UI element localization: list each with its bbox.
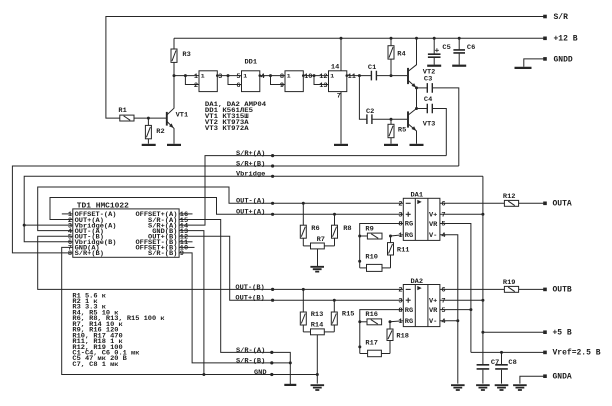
wire pin12 OUT+(B) net to DA2 pin3	[179, 236, 403, 300]
wire DD1 pin7 to ground	[340, 92, 342, 144]
svg-text:R12: R12	[503, 192, 516, 200]
svg-text:C6: C6	[467, 43, 475, 51]
node gate3 input junction	[269, 74, 272, 77]
svg-text:R15: R15	[342, 310, 355, 318]
svg-text:Vbridge: Vbridge	[236, 170, 265, 178]
wire gate4 output down to C2	[359, 76, 367, 120]
logic gate DD1.4 (NOR as inverter)	[329, 71, 347, 92]
wire gate2 feedback loop	[228, 76, 242, 85]
node R16 left	[358, 320, 361, 323]
wire S/R+(A) net: line, drop to HMC pin14, drop from C4	[179, 156, 446, 226]
svg-text:R14: R14	[311, 321, 324, 329]
svg-text:TD1 HMC1022: TD1 HMC1022	[77, 203, 130, 211]
svg-text:R3: R3	[182, 50, 190, 58]
wire gate4 feedback loop	[314, 76, 329, 85]
terminal +12 V	[543, 37, 547, 41]
node C6 on +12V rail	[458, 37, 461, 40]
resistor R17	[360, 353, 368, 355]
wire gate3 feedback loop	[271, 76, 286, 85]
svg-text:C8: C8	[508, 358, 516, 366]
wire C1 to R4/VT2 base node	[376, 75, 407, 77]
node R14 tap on GND rail	[316, 373, 319, 376]
svg-text:GNDA: GNDA	[553, 372, 572, 381]
svg-text:OUT-(A): OUT-(A)	[236, 197, 265, 205]
svg-text:8: 8	[68, 250, 72, 258]
ground S/R- bar	[284, 384, 296, 386]
svg-text:R18: R18	[396, 332, 409, 340]
ground VT3 emitter bar	[410, 144, 424, 146]
transistor VT2	[407, 68, 409, 84]
ground analog below R7	[310, 267, 324, 272]
ground analog GNDA	[513, 385, 527, 390]
node DD1 pin11 output junction	[358, 74, 361, 77]
capacitor C7	[477, 365, 490, 369]
svg-text:R9: R9	[365, 225, 373, 233]
node DA1 V+ on +5V bus	[481, 213, 484, 216]
terminal GNDA	[543, 374, 547, 378]
resistor R18	[389, 322, 391, 329]
svg-text:C3: C3	[424, 75, 432, 83]
node OUT-(B) label dot	[271, 288, 274, 291]
wire pin9 S/R-(B) net	[179, 253, 290, 363]
resistor R14	[303, 331, 310, 333]
svg-text:OUT+(B): OUT+(B)	[235, 294, 264, 302]
node VT2 emitter / C3 tap	[415, 86, 418, 89]
node S/R+(B) label dot	[271, 164, 274, 167]
logic gate DD1.2 (NOR as inverter)	[242, 71, 260, 92]
wire pin2 OUT+(A) net to DA1 pin3	[50, 198, 403, 220]
wire S/R+(B) net: line from C3 to left loop down to HMC pin8	[12, 166, 458, 253]
node R9 right / R11 top / DA1 pin1	[389, 235, 392, 238]
node GND(B) on GND rail	[202, 373, 205, 376]
node DA2 VR on Vref bus	[469, 308, 472, 311]
node +5V branch to C7	[481, 331, 484, 334]
node R1/R2/VT1 base junction	[147, 117, 150, 120]
resistor R2	[147, 118, 149, 125]
svg-text:RG: RG	[405, 306, 413, 314]
wire pin5 OUT-(B) net to DA2 pin2	[38, 236, 404, 289]
svg-text:VR: VR	[429, 220, 437, 228]
wire +5V vertical bus (Vbridge to C7)	[482, 176, 484, 364]
svg-text:1: 1	[194, 72, 198, 80]
wire +5V line to terminal	[483, 331, 545, 333]
resistor R10	[360, 267, 367, 269]
resistor R3	[173, 38, 175, 49]
svg-text:OUT+(A): OUT+(A)	[236, 208, 265, 216]
svg-text:R16: R16	[365, 310, 378, 318]
svg-text:1: 1	[243, 73, 247, 80]
svg-text:OUTA: OUTA	[553, 200, 572, 209]
svg-text:R1: R1	[118, 106, 126, 114]
wire R14 tap to GND rail and analog ground	[316, 335, 318, 384]
svg-text:3: 3	[398, 297, 402, 305]
node OUT+(B) label dot	[271, 299, 274, 302]
op-amp DA1 body	[403, 198, 440, 240]
wire gate3 output to gate4 input	[303, 75, 328, 77]
wire DA2 pin7 V+ to +5V bus	[440, 299, 483, 301]
node R5 top / VT3 base	[390, 118, 393, 121]
svg-text:2: 2	[398, 200, 402, 208]
terminal Vref	[543, 351, 547, 355]
resistor R12	[504, 200, 518, 206]
svg-text:6: 6	[236, 81, 240, 89]
node VT2 collector on +12V rail	[415, 37, 418, 40]
svg-text:RG: RG	[405, 220, 413, 228]
node gate4 output pin	[346, 74, 349, 77]
node R9 left	[358, 235, 361, 238]
DA1 amplifier symbol	[417, 200, 421, 204]
wire gate1 pin2 feedback	[185, 76, 199, 85]
svg-text:S/R-(B): S/R-(B)	[236, 357, 265, 365]
svg-text:OUTB: OUTB	[553, 286, 572, 295]
resistor R6	[302, 202, 305, 205]
IC TD1 HMC1022 body	[73, 209, 179, 257]
svg-text:C1: C1	[368, 63, 376, 71]
wire DD1 input from R3 node	[174, 75, 199, 77]
svg-text:VT3: VT3	[423, 120, 436, 128]
capacitor C2	[367, 114, 372, 124]
node S/R+(A) label dot	[271, 154, 274, 157]
wire DD1 pin14 to +12V rail	[340, 38, 342, 71]
svg-text:2: 2	[398, 286, 402, 294]
node S/R-(B) label dot	[270, 361, 273, 364]
svg-text:C2: C2	[366, 107, 374, 115]
node on RG bus 2	[358, 345, 361, 348]
svg-text:VR: VR	[429, 306, 437, 314]
resistor R16	[360, 321, 367, 323]
node VT3 top / C4 tap	[415, 107, 418, 110]
resistor R11	[390, 236, 392, 243]
ground C5 bar	[427, 65, 441, 67]
svg-text:DD1: DD1	[245, 58, 258, 66]
svg-text:2: 2	[194, 81, 198, 89]
terminal +5 V	[543, 330, 547, 334]
capacitor C5 (polarized)	[433, 38, 435, 54]
node gate1 input junction	[184, 74, 187, 77]
svg-text:S/R: S/R	[554, 13, 569, 22]
svg-text:R4: R4	[397, 50, 405, 58]
resistor R13	[302, 288, 305, 291]
svg-text:S/R-(A): S/R-(A)	[236, 346, 265, 354]
wire R12 to OUTA terminal	[519, 202, 545, 204]
svg-text:R8: R8	[343, 224, 351, 232]
capacitor C8	[500, 351, 503, 354]
ground analog V- bus	[451, 385, 465, 390]
wire C3 to S/R+(B) drop	[432, 88, 459, 166]
svg-text:S/R+(B): S/R+(B)	[236, 160, 265, 168]
svg-text:+5 В: +5 В	[553, 328, 572, 337]
wire DA2 pin8 RG to gain network	[360, 310, 404, 354]
svg-text:S/R+(B): S/R+(B)	[75, 250, 104, 258]
node OUT+(A) label dot	[271, 213, 274, 216]
svg-text:3: 3	[398, 211, 402, 219]
wire +12V rail	[174, 37, 545, 39]
wire DA1 pin7 V+ to +5V bus	[440, 213, 483, 215]
wire pin7 GND(A) to bottom GND rail	[62, 247, 318, 374]
wire Vbridge branch to pin3	[24, 224, 73, 226]
svg-text:9: 9	[280, 81, 284, 89]
resistor R5	[390, 119, 392, 124]
svg-text:1: 1	[287, 73, 291, 80]
wire pin4 OUT-(A) net to DA1 pin2	[38, 187, 404, 231]
node gate2 input junction	[227, 74, 230, 77]
wire pin16 OFFSET+(A) stub	[179, 213, 192, 215]
svg-text:S/R-(B): S/R-(B)	[148, 250, 177, 258]
ground C6 bar	[452, 65, 466, 67]
wire pin15 S/R-(A) net to ground bar	[179, 220, 290, 385]
wire DA1 pin8 RG to gain network	[360, 224, 404, 268]
node R16 right / R18 top / DA2 pin1	[389, 320, 392, 323]
ground R2 bar	[142, 144, 156, 146]
wire DA2 pin5 VR to Vref bus	[440, 309, 471, 311]
svg-text:1: 1	[201, 73, 205, 80]
node gate1 output pin	[216, 74, 219, 77]
wire GNDD terminal to ground	[524, 59, 545, 67]
wire to DA2 pin1 RG	[390, 321, 403, 322]
svg-text:7: 7	[337, 92, 341, 100]
resistor R19	[504, 286, 518, 292]
wire pin1 OFFSET-(A) stub	[62, 213, 73, 215]
resistor R15	[333, 299, 336, 302]
svg-text:14: 14	[331, 63, 339, 71]
wire emitter bus VT2-VT3	[416, 88, 418, 109]
wire DA1 pin4 V- to analog ground bus	[440, 235, 458, 384]
wire gate2 output to gate3 input	[260, 75, 285, 77]
ground VT1 emitter bar	[167, 144, 181, 146]
wire Vref line to terminal	[471, 351, 545, 353]
ground analog below C8	[495, 385, 509, 390]
wire R1 to VT1 base node	[134, 117, 167, 119]
wire DA2 pin4 V- to ground bus	[440, 320, 458, 322]
ground analog below R14	[311, 385, 325, 390]
wire pin13 GND(B) down to GND rail	[179, 231, 204, 375]
node DA2 V+ on +5V bus	[481, 299, 484, 302]
svg-text:R11: R11	[397, 246, 410, 254]
node gate4 input junction	[313, 74, 316, 77]
capacitor C1	[371, 71, 376, 81]
resistor R7	[303, 245, 310, 247]
svg-text:C7, C8 1 мк: C7, C8 1 мк	[72, 360, 118, 368]
node gate2 output pin	[259, 74, 262, 77]
svg-text:RG: RG	[405, 231, 413, 239]
svg-text:VT1: VT1	[176, 111, 189, 119]
svg-text:RG: RG	[405, 317, 413, 325]
svg-text:+12 В: +12 В	[554, 35, 578, 44]
wire gate4 output to C1	[347, 75, 372, 77]
svg-text:C4: C4	[424, 96, 432, 104]
wire C4 to S/R+(A) drop	[432, 109, 446, 156]
svg-text:GNDD: GNDD	[554, 55, 573, 64]
resistor R9	[360, 235, 368, 237]
svg-text:R7: R7	[317, 235, 325, 243]
wire to DA1 pin1 RG	[391, 235, 404, 236]
wire Vbridge net: line to +5V drop, left loop to HMC pins 3 and 6	[24, 176, 483, 242]
terminal GNDD	[543, 57, 547, 61]
node GND label dot	[270, 373, 273, 376]
node DA2 V- on ground bus	[456, 319, 459, 322]
svg-text:R6: R6	[311, 224, 319, 232]
svg-text:GND: GND	[254, 368, 267, 376]
svg-text:DA1: DA1	[411, 191, 424, 199]
svg-text:13: 13	[319, 81, 327, 89]
svg-text:R13: R13	[311, 311, 324, 319]
svg-text:V-: V-	[429, 318, 437, 326]
terminal OUTB	[543, 288, 547, 292]
transistor VT1	[166, 112, 168, 126]
op-amp DA2 body	[403, 285, 440, 327]
capacitor C3	[417, 87, 428, 89]
svg-text:S/R+(A): S/R+(A)	[236, 149, 265, 157]
wire gate1 output to gate2 input	[217, 75, 241, 77]
wire C2 to R5/VT3 base node	[372, 118, 407, 120]
transistor VT3	[407, 111, 409, 127]
svg-text:V-: V-	[429, 231, 437, 239]
node R4 bottom / VT2 base	[390, 74, 393, 77]
wire DA1 pin6 output to R12	[440, 202, 505, 204]
svg-text:C5: C5	[442, 43, 450, 51]
svg-text:VT3 КТ972А: VT3 КТ972А	[205, 125, 250, 133]
node S/R-(A) label dot	[270, 351, 273, 354]
node Vbridge pin3 junction	[23, 224, 26, 227]
svg-text:R17: R17	[365, 339, 378, 347]
svg-text:V+: V+	[429, 297, 437, 305]
node R4 top on +12V rail	[390, 37, 393, 40]
node OUT-(A) label dot	[271, 202, 274, 205]
svg-text:OUT-(B): OUT-(B)	[235, 283, 264, 291]
wire GNDA terminal to analog ground	[520, 376, 545, 383]
svg-text:1: 1	[330, 73, 334, 80]
svg-text:R19: R19	[503, 278, 516, 286]
terminal S/R	[543, 15, 547, 19]
DA2 amplifier symbol	[417, 286, 421, 290]
wire DA1 pin5 VR to Vref bus	[440, 224, 471, 353]
ground R5 bar	[384, 144, 398, 146]
wire pin11 OFFSET-(B) stub	[179, 241, 192, 243]
resistor R1	[120, 115, 134, 121]
svg-text:Vref=2.5 В: Vref=2.5 В	[553, 349, 601, 358]
svg-text:R5: R5	[398, 126, 406, 134]
node R3/VT1 collector/DD1 input	[173, 74, 176, 77]
resistor R4	[390, 38, 392, 45]
wire R7 tap to analog ground	[317, 249, 319, 266]
ground GNDD bar	[515, 67, 532, 69]
svg-text:V+: V+	[429, 211, 437, 219]
wire R19 to OUTB terminal	[519, 288, 545, 290]
node pin14 on +12V rail	[340, 37, 343, 40]
svg-text:DA2: DA2	[411, 277, 424, 285]
ground DD1 pin7 bar	[334, 144, 348, 146]
terminal OUTA	[543, 202, 547, 206]
capacitor C6	[458, 38, 460, 50]
wire DA2 pin6 output to R19	[440, 288, 505, 290]
wire pin10 OFFSET+(B) stub	[179, 246, 194, 248]
node S/R-(B) joins S/R-(A) ground drop	[289, 361, 292, 364]
svg-text:R2: R2	[156, 128, 164, 136]
node gate3 output pin	[302, 74, 305, 77]
logic gate DD1.3 (NOR as inverter)	[285, 71, 303, 92]
wire S/R net: terminal to R1 via left loop	[106, 17, 545, 119]
node Vbridge label dot	[271, 175, 274, 178]
ground analog below C7	[476, 385, 490, 390]
svg-text:R10: R10	[365, 253, 378, 261]
node on RG bus	[358, 260, 361, 263]
logic gate DD1.1 (NOR as inverter)	[199, 71, 217, 92]
resistor R8	[333, 213, 336, 216]
node C5 on +12V rail	[433, 37, 436, 40]
capacitor C4	[417, 108, 428, 110]
